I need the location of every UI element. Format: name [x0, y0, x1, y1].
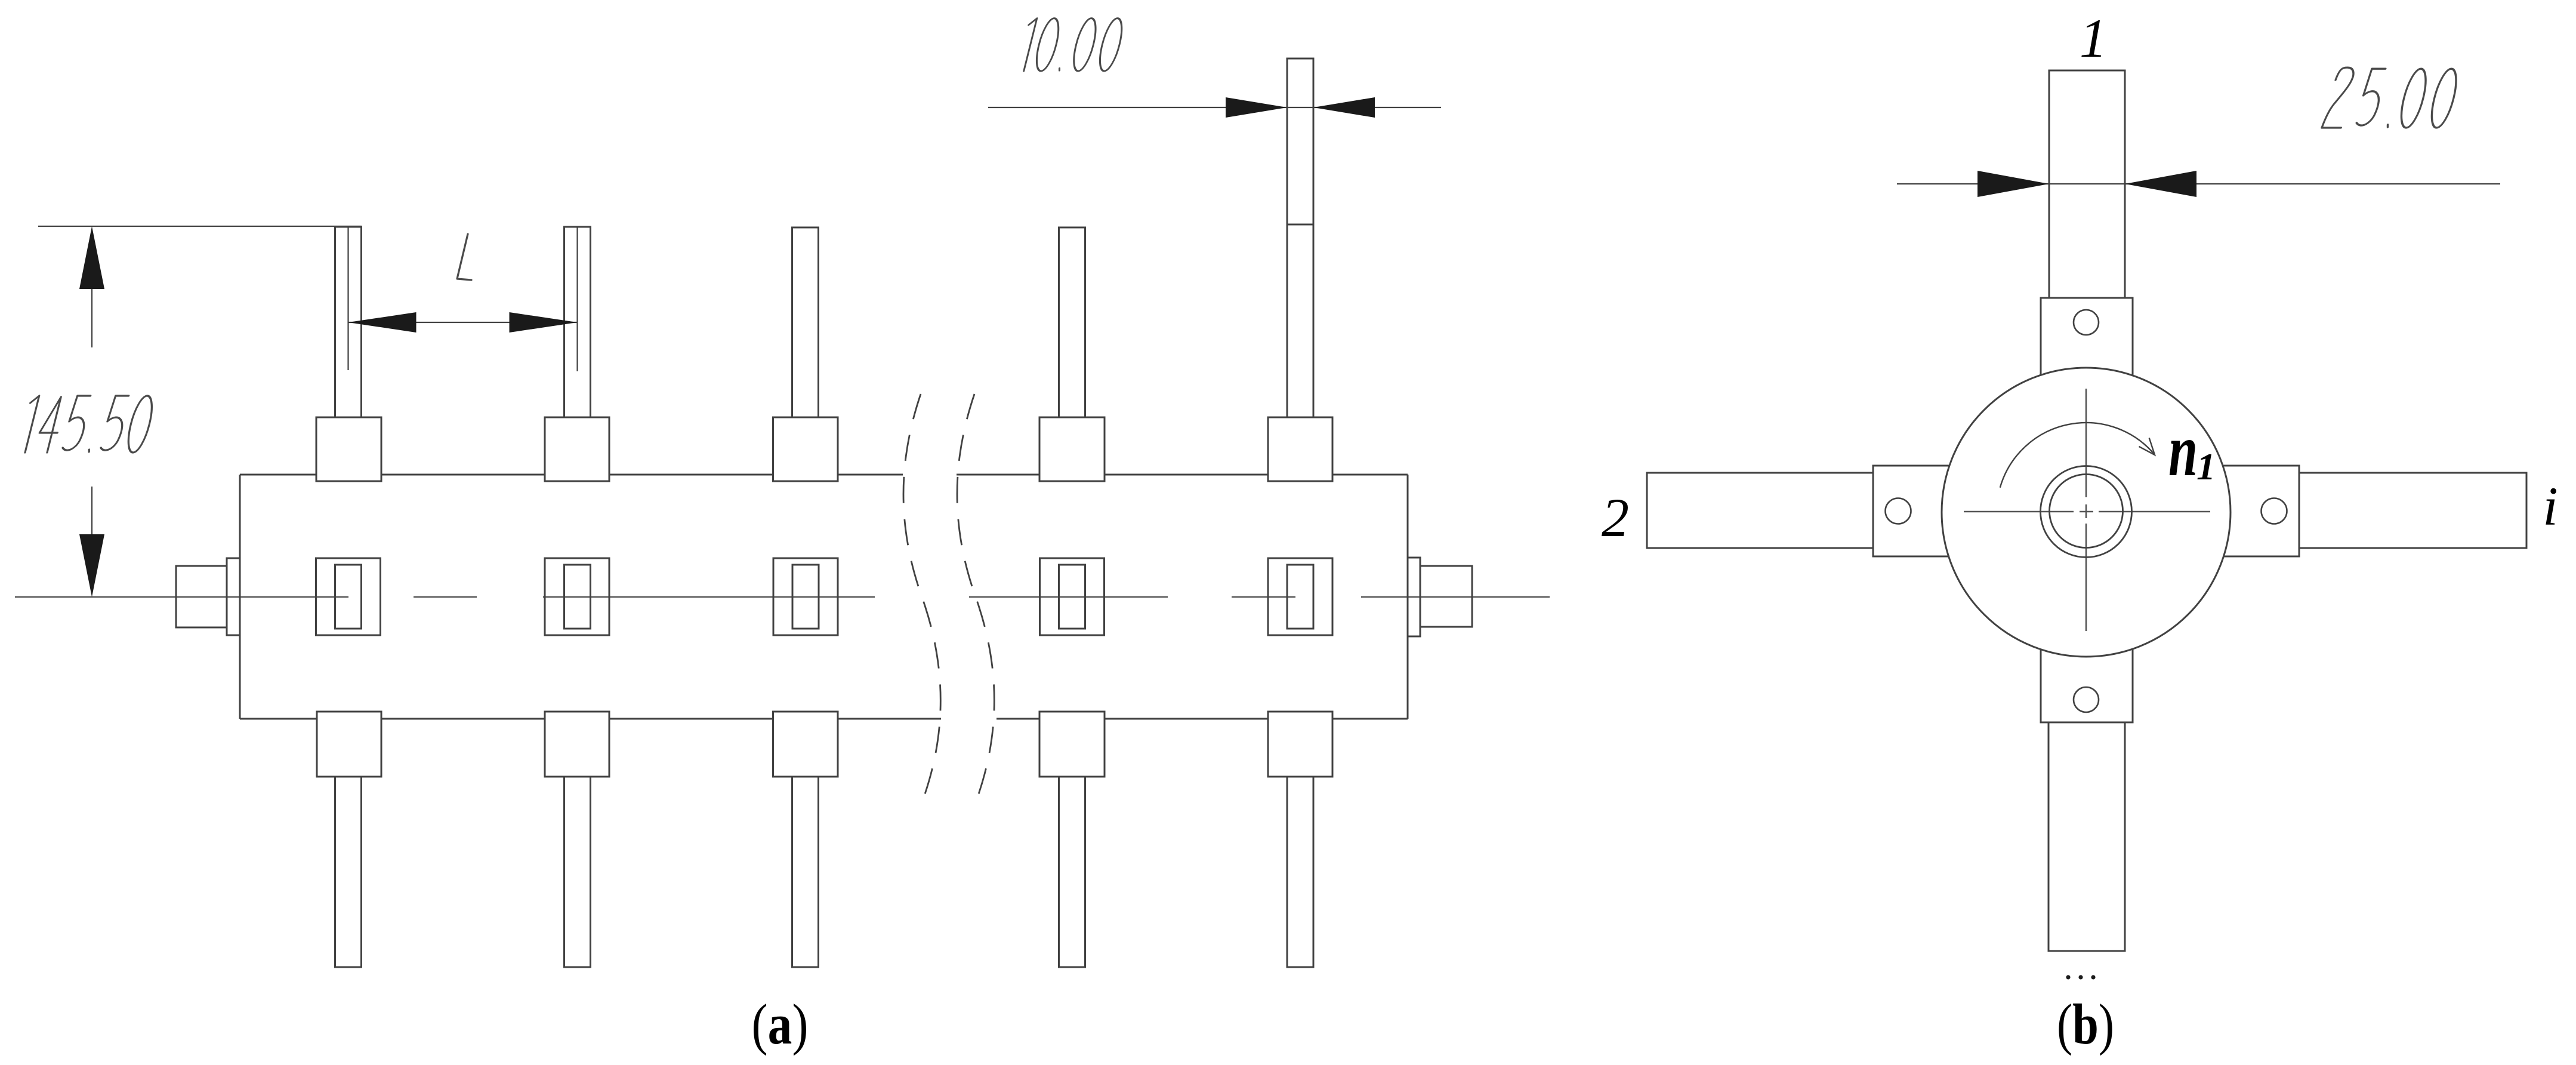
roller body outline [240, 475, 1408, 719]
label n1 [2168, 410, 2198, 492]
boss B6 bottom [317, 712, 381, 777]
top block hole [2074, 310, 2099, 335]
right bearing block [2223, 466, 2299, 556]
right block hole [2262, 498, 2287, 524]
hub circle [1942, 368, 2231, 657]
FIGA [15, 59, 1550, 967]
dim stem lower [91, 487, 92, 535]
left shaft stub [176, 566, 227, 627]
arrow right-pointing [1226, 97, 1287, 118]
pin socket S1 inner [335, 565, 362, 629]
dimension 25.00 [1897, 183, 2500, 184]
bottom block hole [2074, 687, 2099, 712]
arrow down [79, 534, 104, 597]
svg-text:(a): (a) [752, 992, 809, 1056]
pin P4 top [1059, 227, 1085, 417]
boss B5 top [1268, 417, 1332, 481]
boss B10 bottom [1268, 712, 1332, 777]
pin P3 top [792, 227, 819, 417]
dimension digit strokes [18, 19, 2461, 453]
body top edge segments [240, 474, 316, 476]
rotation arrow n1 [2000, 423, 2155, 488]
boss B3 top [773, 417, 838, 481]
pin P7 bottom [564, 777, 591, 967]
bottom shaft arm [2049, 722, 2125, 951]
pin P9 bottom [1059, 777, 1085, 967]
hub center lines [1964, 389, 2210, 631]
pin socket S4 outer [1040, 558, 1105, 635]
body right edge [1407, 475, 1409, 719]
value 145.50 [18, 396, 156, 453]
ellipsis dots [2066, 975, 2095, 979]
svg-text:(b): (b) [2057, 992, 2114, 1056]
pin P8 bottom [792, 777, 819, 967]
left bearing block [1873, 466, 1949, 556]
pin socket S3 outer [773, 558, 838, 635]
extension line pin1 [347, 227, 348, 370]
svg-text:i: i [2543, 476, 2558, 537]
svg-text:n: n [2168, 410, 2198, 492]
pin socket S1 outer [316, 558, 381, 635]
left arm (shaft 2) [1647, 473, 1873, 548]
value 25.00 [2322, 67, 2461, 128]
bore circle inner [2050, 475, 2123, 548]
bottom bearing block [2041, 650, 2133, 722]
boss B9 bottom [1039, 712, 1105, 777]
pin P5 top full length [1287, 59, 1313, 417]
extension line pin2 [576, 227, 578, 371]
arrow right [510, 312, 578, 333]
shaft 1 (top arm) [2049, 70, 2125, 298]
wire: axis segment 1 [15, 596, 348, 598]
pin P1 top [335, 227, 362, 417]
value 10.00 [1017, 19, 1126, 71]
boss B4 top [1039, 417, 1105, 481]
wire: axis segment 6 [1361, 596, 1550, 598]
pin socket S3 inner [792, 565, 819, 629]
pin P10 bottom [1287, 777, 1313, 967]
body bottom edge segments [240, 718, 316, 720]
dim stem upper [91, 289, 92, 347]
svg-text:2: 2 [1602, 487, 1629, 548]
pin socket S5 outer [1268, 558, 1332, 635]
wire: axis segment 2 [414, 596, 477, 598]
wire: axis segment 4 [969, 596, 1168, 598]
pin socket S2 outer [545, 558, 609, 635]
wire: axis segment 3 [543, 596, 875, 598]
dim line [348, 322, 578, 323]
dimension L [348, 227, 578, 371]
body left edge [239, 475, 241, 719]
boss B7 bottom [545, 712, 609, 777]
arrow left [348, 312, 417, 333]
break line 1 (dashed S-curve) [903, 394, 940, 796]
pin socket S5 inner [1287, 565, 1313, 629]
pin P6 bottom [335, 777, 362, 967]
pin 5 length tick [1287, 224, 1313, 226]
svg-text:1: 1 [2196, 445, 2216, 488]
dimension 145.50 [38, 226, 362, 535]
FIGB [1647, 70, 2526, 980]
left flange [227, 558, 240, 635]
svg-text:1: 1 [2080, 8, 2107, 69]
arrow left-pointing [1313, 97, 1375, 118]
right arm (shaft i) [2299, 473, 2526, 548]
wire: axis segment 5 [1232, 596, 1295, 598]
pin socket S4 inner [1059, 565, 1085, 629]
boss B2 top [545, 417, 609, 481]
pin socket S2 inner [564, 565, 591, 629]
left block hole [1886, 498, 1911, 524]
pin P2 top [564, 227, 591, 417]
dimension 10.00 [988, 107, 1441, 108]
arrow left-pointing [2125, 171, 2196, 197]
center line (axis) of roller shaft [15, 596, 1550, 598]
arrow right-pointing [1977, 171, 2049, 197]
break line 2 (dashed S-curve) [957, 394, 994, 796]
arrow up [79, 226, 104, 289]
right shaft stub [1420, 566, 1472, 627]
reference line top [38, 226, 362, 227]
boss B8 bottom [773, 712, 838, 777]
bore circle outer [2041, 466, 2132, 558]
right flange [1408, 558, 1420, 636]
label L [457, 234, 471, 280]
top bearing block [2041, 298, 2133, 375]
boss B1 top [316, 417, 381, 481]
